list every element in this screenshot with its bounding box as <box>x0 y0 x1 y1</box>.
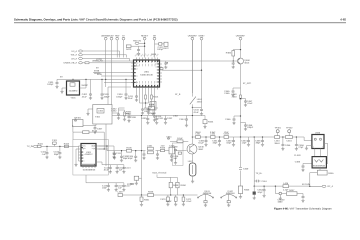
wire gate thermal drop <box>157 175 177 178</box>
capacitor C115 <box>102 183 110 192</box>
wire R5V_IN <box>139 42 145 44</box>
svg-text:R5V: R5V <box>115 34 120 37</box>
svg-text:4813: 4813 <box>244 61 250 64</box>
svg-text:C114: C114 <box>125 167 131 170</box>
wire c452 r452 link <box>119 108 125 110</box>
resistor R103 series <box>64 142 70 147</box>
junction r420-reset <box>144 46 145 47</box>
capacitor C453b <box>127 114 136 123</box>
capacitor C441 gate <box>166 135 172 139</box>
capacitor C449 bias <box>172 146 178 165</box>
wire tx_in run <box>37 145 78 147</box>
capacitor C105 shunt <box>120 151 129 162</box>
inductor L441 <box>195 133 201 139</box>
svg-text:G1: G1 <box>82 151 84 154</box>
svg-text:C449: C449 <box>172 146 178 149</box>
U101 left pin names <box>82 145 85 163</box>
svg-text:TX_IN: TX_IN <box>27 145 34 148</box>
resistor R430 series <box>144 104 158 110</box>
svg-text:82pF: 82pF <box>258 191 264 194</box>
resistor R452 <box>123 110 132 121</box>
resistor R412 <box>145 95 147 103</box>
header rule <box>14 22 346 24</box>
wire Q401 emitter APC <box>240 64 242 138</box>
wire r465 gnd <box>240 194 242 196</box>
junction bus-unswb <box>105 79 106 80</box>
wire WE run <box>83 55 127 58</box>
svg-text:L447: L447 <box>188 160 194 163</box>
inductor L448 <box>285 136 292 143</box>
power symbol UNSWB+ <box>101 34 111 40</box>
svg-text:50 OHM: 50 OHM <box>302 183 310 186</box>
svg-text:R421: R421 <box>151 53 157 56</box>
capacitor C452 <box>111 107 120 119</box>
wire R446 to output <box>310 173 322 187</box>
svg-text:39nH: 39nH <box>274 142 280 145</box>
op-amp U101 body <box>81 144 96 167</box>
junction b2 <box>219 136 220 137</box>
resistor R409 <box>160 68 163 70</box>
svg-text:TP402: TP402 <box>286 127 293 130</box>
svg-text:R451: R451 <box>144 199 150 202</box>
resistor R101 <box>37 142 43 147</box>
junction bus c404 <box>125 79 126 80</box>
svg-text:4862: 4862 <box>198 148 204 151</box>
svg-text:C444: C444 <box>179 118 185 121</box>
resistor R420 <box>126 45 132 51</box>
wire RESET drop <box>144 40 146 58</box>
filter box FL401 <box>150 102 156 116</box>
svg-text:R448: R448 <box>148 191 154 194</box>
svg-text:WARP: WARP <box>94 72 101 75</box>
wire y401 right to bus <box>80 79 87 88</box>
junction c106 <box>135 150 136 151</box>
svg-text:FL440: FL440 <box>294 154 301 157</box>
inductor L460 <box>232 93 242 99</box>
power symbol 5R <box>153 34 156 40</box>
junction bus-y401 <box>85 79 86 80</box>
svg-text:9.1pF: 9.1pF <box>177 137 183 140</box>
svg-text:WARP: WARP <box>82 84 89 87</box>
svg-text:TX_B+: TX_B+ <box>256 172 263 175</box>
resistor R446 <box>317 168 334 175</box>
svg-text:R414: R414 <box>153 96 159 99</box>
capacitor C453 shunt <box>226 137 235 146</box>
capacitor C450 shunt <box>199 137 208 146</box>
svg-text:.01uF: .01uF <box>193 111 199 114</box>
capacitor C412 <box>141 108 150 115</box>
svg-text:LOCK: LOCK <box>96 58 102 61</box>
svg-text:.01uF: .01uF <box>247 102 253 105</box>
capacitor C102 <box>41 146 49 158</box>
wire 5V bus <box>57 78 134 80</box>
connector WE_A <box>71 54 83 57</box>
svg-text:Y401: Y401 <box>70 96 76 99</box>
U401 right pins <box>160 61 163 82</box>
capacitor C455 shunt <box>255 137 264 146</box>
capacitor C404 <box>117 79 127 99</box>
wire 5T_B feed horizontal <box>112 115 205 117</box>
capacitor C462 <box>257 186 265 197</box>
connector UNSW_AB_A <box>64 62 83 65</box>
connector RF_A <box>322 185 334 188</box>
wire base run from U401 <box>162 60 233 62</box>
svg-text:WE_A: WE_A <box>71 54 78 57</box>
svg-text:UNSWB+: UNSWB+ <box>188 34 198 37</box>
resistor R449 bias <box>178 152 181 154</box>
wire U401 pin11 drop <box>142 90 144 109</box>
svg-text:100pF: 100pF <box>247 126 254 129</box>
capacitor C431 <box>155 116 164 125</box>
svg-text:4880: 4880 <box>278 201 284 204</box>
capacitor C467 <box>244 100 253 107</box>
resistor R451 <box>140 195 150 206</box>
capacitor C446 shunt <box>142 151 145 160</box>
capacitor C448 shunt <box>170 154 179 162</box>
wire c468 tap <box>241 123 246 125</box>
junction bias <box>240 49 241 50</box>
wire r420 net <box>131 45 145 47</box>
svg-text:5R: 5R <box>153 34 156 37</box>
svg-text:U440: U440 <box>315 131 321 134</box>
svg-text:4-65: 4-65 <box>340 17 346 21</box>
svg-text:27pF: 27pF <box>298 146 304 149</box>
capacitor C444 <box>179 116 188 127</box>
svg-text:C408: C408 <box>131 116 137 119</box>
varactor network CR401 <box>72 117 83 127</box>
svg-text:AD8012: AD8012 <box>85 153 94 156</box>
svg-text:100pF: 100pF <box>157 48 164 51</box>
svg-text:R420: R420 <box>126 48 132 51</box>
junction chain merge <box>104 148 105 149</box>
svg-text:C459: C459 <box>295 161 301 164</box>
svg-text:.01uF: .01uF <box>103 169 109 172</box>
junction b3 <box>262 136 263 137</box>
connector 3.3_A <box>71 50 82 53</box>
junction txin2 <box>59 146 60 147</box>
svg-text:R447: R447 <box>289 189 295 192</box>
ground U440 left <box>305 146 312 150</box>
svg-text:C444: C444 <box>286 140 292 143</box>
wire U401 pin10 drop <box>139 90 141 104</box>
ground y401 left <box>60 88 63 93</box>
svg-text:CR401: CR401 <box>74 117 82 120</box>
svg-text:39nH: 39nH <box>195 131 201 134</box>
junction r5v-reset <box>144 43 145 44</box>
capacitor C106 shunt <box>128 151 138 162</box>
wire U401 pin12 drop <box>145 90 147 97</box>
wire R5V drop <box>116 40 118 58</box>
junction sense <box>254 136 255 137</box>
capacitor C411 <box>128 95 138 102</box>
svg-text:5185130C35: 5185130C35 <box>140 73 153 76</box>
power symbol UNSWB+ 2 <box>188 34 198 40</box>
capacitor C461 tap <box>254 180 267 183</box>
inductor L449 <box>118 191 124 197</box>
wire lock run <box>95 60 134 62</box>
svg-text:2464: 2464 <box>197 101 203 104</box>
capacitor C410 <box>194 107 204 115</box>
wire y401 left pin <box>62 87 67 89</box>
svg-text:9180469V01: 9180469V01 <box>313 165 326 168</box>
resistor R410 <box>85 59 103 63</box>
inductor L444 diagonal feed <box>190 40 203 137</box>
resistor R444 <box>203 116 214 129</box>
wire mod long vertical <box>105 124 107 166</box>
inductor L442 <box>210 133 216 139</box>
shield box U101 <box>73 140 109 176</box>
wire mod box right <box>112 112 119 114</box>
wire 9.3V run <box>162 69 202 71</box>
U101 bottom inner pin row <box>83 164 96 165</box>
junction b5 <box>296 136 297 137</box>
svg-text:Gate_Thermal: Gate_Thermal <box>152 172 166 175</box>
wire 5t8b run <box>93 72 134 74</box>
U101 left pins <box>79 146 82 161</box>
wire mod join <box>140 103 149 108</box>
svg-text:R422: R422 <box>163 47 169 50</box>
junction ant <box>309 186 310 187</box>
resistor R464 <box>253 186 256 200</box>
svg-text:R5V: R5V <box>130 183 135 186</box>
svg-text:1uF: 1uF <box>119 169 123 172</box>
capacitor C401 <box>48 79 58 88</box>
svg-text:C5V: C5V <box>109 34 114 37</box>
wire bias tap <box>233 48 240 58</box>
svg-text:G2: G2 <box>82 154 84 157</box>
power detector R447 <box>282 189 303 195</box>
svg-text:C452: C452 <box>111 110 117 113</box>
transistor Q442 spare <box>221 190 237 207</box>
svg-text:Figure 4-66: VHF Transmitter: Figure 4-66: VHF Transmitter Schematic D… <box>274 208 332 211</box>
U101 right pin names <box>92 145 96 151</box>
svg-text:100pF: 100pF <box>47 83 54 86</box>
capacitor C464 <box>232 61 235 69</box>
resistor R465 <box>238 186 250 194</box>
inductor L443 <box>275 136 281 143</box>
svg-text:OUT: OUT <box>155 60 159 63</box>
ground L447 <box>191 180 194 183</box>
capacitor C456 shunt <box>281 137 291 150</box>
junction base <box>233 60 234 61</box>
svg-text:C431: C431 <box>158 117 164 120</box>
svg-text:UNSW_AB_A: UNSW_AB_A <box>64 62 78 65</box>
svg-text:L449: L449 <box>118 191 124 194</box>
svg-text:.1uF: .1uF <box>42 153 47 156</box>
svg-text:R105: R105 <box>126 147 132 150</box>
capacitor C112 <box>104 165 112 174</box>
resistor R441 gate <box>177 137 183 143</box>
svg-text:3.3_A: 3.3_A <box>71 50 77 53</box>
U401 pin pads top <box>136 61 158 63</box>
svg-text:C465: C465 <box>224 92 230 95</box>
svg-text:Schematic Diagrams, Overlays,: Schematic Diagrams, Overlays, and Parts … <box>14 17 178 21</box>
diode CR440 <box>278 192 286 201</box>
U101 right pins <box>96 146 99 149</box>
junction bus c403 <box>101 79 102 80</box>
svg-text:2: 2 <box>313 146 314 149</box>
svg-text:L446: L446 <box>283 182 289 185</box>
capacitor C447 shunt <box>156 151 159 160</box>
wire mod box left <box>88 109 93 112</box>
wire u401 left sf drop <box>108 87 131 105</box>
crystal oscillator Y401 module <box>67 81 80 99</box>
U401 top inner name dashes <box>137 64 156 67</box>
wire c465 tap <box>233 88 241 90</box>
svg-text:5105469E65: 5105469E65 <box>83 169 96 172</box>
resistor R422 <box>162 42 169 50</box>
svg-text:C469: C469 <box>243 168 249 171</box>
svg-text:T452: T452 <box>95 116 101 119</box>
capacitor C432 <box>164 116 173 125</box>
wire 5T_B feed vertical <box>141 116 143 151</box>
svg-text:5T_APC: 5T_APC <box>243 82 252 85</box>
U401 bottom pins <box>137 87 158 90</box>
U401 top inner pin names <box>136 61 158 64</box>
svg-text:SF: SF <box>134 78 136 81</box>
wire L447 to gnd <box>192 176 194 180</box>
U401 left inner pin names <box>134 62 139 84</box>
wire mod box feed <box>111 104 113 106</box>
wire thermistor vertical <box>141 151 143 195</box>
connector TX_IN <box>27 145 38 148</box>
wire Q401 collector <box>240 40 242 48</box>
wire 5T drop <box>123 40 125 58</box>
wire UNSW run <box>83 62 134 64</box>
U101 top inner labels <box>82 144 96 150</box>
svg-text:100pF: 100pF <box>104 95 111 98</box>
junction SWB <box>201 70 202 71</box>
junction c472-line <box>183 194 184 195</box>
wire c467 tap <box>241 99 246 101</box>
U401 right inner pin names <box>155 60 160 84</box>
transistor Q441 spare <box>197 190 213 207</box>
capacitor C470 <box>160 195 169 206</box>
svg-text:12pF: 12pF <box>224 131 230 134</box>
svg-text:C430: C430 <box>141 117 147 120</box>
U401 top pins <box>137 58 158 61</box>
capacitor C110 series 5T_B <box>73 130 104 149</box>
junction c105 <box>121 150 122 151</box>
wire gnd pin run <box>104 82 134 84</box>
connector R5V_IN <box>133 40 141 45</box>
capacitor C458 shunt <box>295 137 305 150</box>
svg-text:UNSWB+: UNSWB+ <box>236 34 246 37</box>
wire Q440 collector <box>191 137 193 144</box>
svg-text:FL401: FL401 <box>150 112 157 115</box>
U401 pin pads bottom <box>136 85 158 87</box>
svg-text:R444: R444 <box>208 121 214 124</box>
resistor R448 <box>148 191 154 197</box>
directional coupler U440 <box>312 131 324 148</box>
wire U401 pin13 drop <box>148 90 150 104</box>
svg-text:C407: C407 <box>97 127 103 130</box>
svg-text:R460: R460 <box>226 51 232 54</box>
svg-text:16.8MHZ: 16.8MHZ <box>69 90 79 93</box>
junction apc joins <box>240 136 241 137</box>
wire 5R drop <box>154 40 156 58</box>
junction collector node <box>192 136 193 137</box>
wire U101 vs <box>99 148 109 150</box>
svg-text:XTAL: XTAL <box>134 62 138 65</box>
svg-text:L445: L445 <box>147 144 153 147</box>
wire swb cross link <box>192 106 201 108</box>
capacitor C111 <box>112 152 121 159</box>
wire lower output line <box>254 185 322 187</box>
svg-text:R452: R452 <box>126 113 132 116</box>
svg-text:.01uF: .01uF <box>127 97 133 100</box>
wire UH run <box>83 59 130 62</box>
capacitor C114 <box>122 165 131 174</box>
wire SWB+ drop <box>201 40 203 107</box>
junction lower2 <box>263 185 264 186</box>
wire main RF line B <box>192 137 312 141</box>
svg-text:R103: R103 <box>64 142 70 145</box>
U401 left pins <box>131 63 134 83</box>
wire base <box>233 56 238 61</box>
capacitor C103 <box>54 146 62 158</box>
svg-text:R101: R101 <box>38 142 44 145</box>
svg-text:UH_A: UH_A <box>71 57 77 60</box>
wire tx_in left pins stack <box>76 146 79 163</box>
capacitor C409 <box>164 61 168 69</box>
bias network box <box>172 143 183 165</box>
capacitor C466 <box>225 118 235 125</box>
capacitor C454b <box>93 125 103 133</box>
junction b1 <box>205 136 206 137</box>
wire c466 tap <box>234 116 241 118</box>
svg-text:3: 3 <box>322 146 323 149</box>
capacitor C451 shunt <box>212 137 221 146</box>
junction r449-line <box>170 194 171 195</box>
svg-text:82pF: 82pF <box>227 142 233 145</box>
svg-text:RF_A: RF_A <box>328 185 334 188</box>
wire UNSWB+2 drop <box>191 40 193 93</box>
junction thermistor-line <box>141 194 142 195</box>
wire driver input chain <box>99 146 187 151</box>
junction mod <box>145 102 146 103</box>
transistor Q440 PA driver <box>187 144 204 154</box>
capacitor C101 <box>52 139 58 146</box>
svg-text:C441: C441 <box>166 135 172 138</box>
svg-text:TP401: TP401 <box>274 127 281 130</box>
svg-text:5T_B: 5T_B <box>175 93 181 96</box>
svg-text:100pF: 100pF <box>116 95 123 98</box>
junction txin1 <box>46 146 47 147</box>
power symbol SWB+ <box>198 34 205 40</box>
capacitor C117 <box>122 183 131 192</box>
svg-text:SWB+: SWB+ <box>198 34 205 37</box>
capacitor C113 <box>116 165 125 174</box>
svg-text:.01uF: .01uF <box>186 200 192 203</box>
resistor R449b <box>169 177 179 195</box>
wire U440 to FL440 stubs <box>315 149 321 157</box>
U101 pin pads left <box>82 147 83 162</box>
U401 bottom inner pin names <box>136 84 159 87</box>
wire gate bias line <box>170 140 188 142</box>
ground r465 <box>239 195 242 198</box>
U401 pin pads left <box>134 62 136 83</box>
svg-text:OUT: OUT <box>92 145 96 148</box>
svg-text:RESET: RESET <box>141 34 149 37</box>
svg-text:5T: 5T <box>134 71 136 74</box>
thermistor RT440 <box>127 176 142 186</box>
capacitor C472 <box>182 195 192 206</box>
connector UH_A <box>71 57 82 60</box>
transistor Q401 <box>238 58 251 64</box>
wire APC sense vertical <box>253 137 255 186</box>
svg-text:L452: L452 <box>173 115 179 118</box>
